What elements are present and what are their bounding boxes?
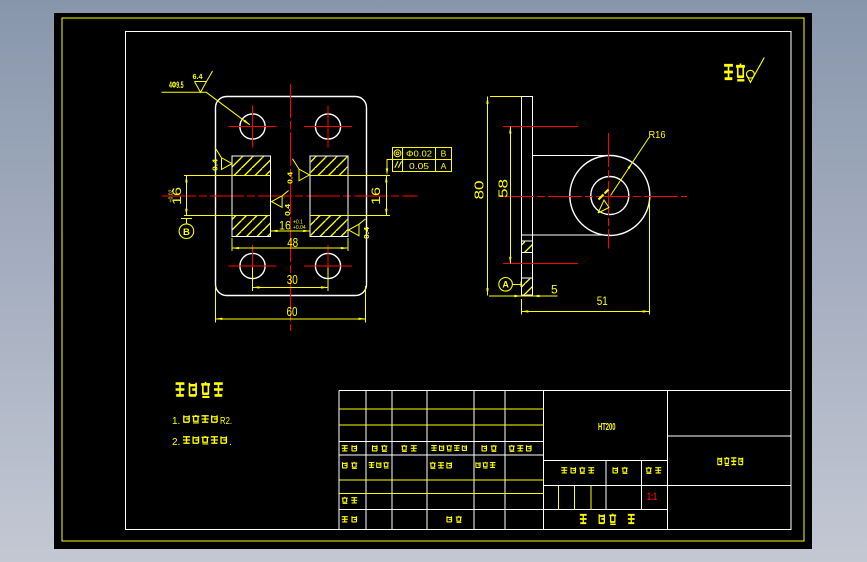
centerline cross of hole top-right — [304, 106, 352, 148]
dimension 16 slot height (left) — [185, 175, 187, 215]
plate hatching lower patch — [522, 279, 532, 295]
svg-text:HT200: HT200 — [598, 422, 616, 433]
svg-text:A: A — [441, 161, 447, 171]
row: check — [342, 497, 348, 504]
stage mark / weight / scale labels — [561, 467, 567, 473]
svg-text:30: 30 — [287, 272, 298, 287]
surface finish 0.4 slot right face — [293, 159, 310, 181]
horizontal center line of slot — [162, 195, 418, 197]
hole top-right — [315, 114, 340, 139]
svg-text:2.: 2. — [172, 437, 180, 448]
title block yellow lines — [339, 409, 591, 510]
row: craft — [342, 516, 348, 522]
side view: plate — [521, 97, 532, 295]
title block header row labels — [342, 445, 348, 451]
centerline cross of hole bottom-right — [304, 245, 352, 287]
dimension 60 — [215, 286, 365, 323]
hatching right block top — [311, 156, 348, 175]
side view: hole circle — [591, 177, 629, 215]
left boss block outline — [232, 156, 271, 237]
svg-text:B: B — [183, 227, 190, 238]
dimension 16 slot width with tolerance — [271, 230, 311, 232]
svg-text:0.4: 0.4 — [362, 226, 371, 239]
tolerance frame leader — [387, 159, 393, 170]
svg-text:1:1: 1:1 — [647, 491, 657, 503]
row: design — [343, 462, 348, 468]
hatching left block top — [233, 156, 271, 175]
hole row center lines side view — [503, 127, 578, 264]
hatching right block bottom — [311, 216, 348, 236]
svg-text:+0.02: +0.02 — [169, 190, 175, 203]
plate hatching upper patch — [522, 242, 532, 253]
dimension 58 — [509, 127, 511, 264]
hole top-left — [240, 114, 265, 139]
svg-text:58: 58 — [496, 179, 510, 198]
surface finish 0.4 slot left face — [272, 191, 289, 208]
front view: part outline rounded square — [216, 97, 367, 296]
svg-text:.: . — [229, 437, 232, 448]
parallelism symbol — [395, 161, 402, 168]
svg-text:16: 16 — [369, 187, 383, 205]
hole bottom-left — [240, 253, 265, 278]
part name — [718, 457, 722, 465]
technical requirements title — [176, 383, 185, 397]
geometric tolerance frame — [393, 147, 452, 171]
svg-text:R2.: R2. — [220, 416, 232, 427]
side view horizontal center line — [500, 195, 687, 197]
dimension 16 boss height (right) — [385, 175, 387, 215]
svg-text:1.: 1. — [172, 416, 180, 427]
svg-text:6.4: 6.4 — [193, 72, 204, 81]
dimension 30 — [253, 268, 329, 292]
right boss block outline — [310, 156, 348, 237]
plate section edges — [521, 241, 532, 278]
hatching left block bottom — [233, 216, 271, 236]
side view vertical center line — [607, 133, 609, 249]
svg-text:0.4: 0.4 — [283, 203, 292, 216]
finish mark at hole center — [598, 200, 609, 213]
centerline cross of hole top-left — [229, 106, 277, 148]
datum symbol A side view — [512, 282, 521, 288]
side view: arm top/bottom lines — [521, 156, 610, 236]
svg-text:48: 48 — [287, 235, 298, 250]
svg-text:B: B — [441, 149, 447, 159]
svg-text:80: 80 — [472, 180, 486, 199]
side view: boss circle R16 — [570, 156, 650, 236]
dimension 48 — [232, 238, 348, 251]
svg-text:R16: R16 — [649, 130, 666, 141]
dimension 5 — [489, 295, 558, 297]
centerline cross of hole bottom-left — [229, 245, 277, 287]
concentricity symbol — [394, 150, 401, 157]
svg-text:4Φ9.5: 4Φ9.5 — [169, 80, 184, 90]
outer yellow border frame — [62, 18, 804, 541]
svg-text:Φ0.02: Φ0.02 — [406, 149, 432, 159]
dimension 51 — [521, 200, 649, 315]
svg-text:0.05: 0.05 — [409, 161, 429, 171]
slot band edge lines yellow — [184, 175, 390, 215]
surface finish 0.4 right block outer face — [349, 219, 366, 236]
datum symbol B — [181, 219, 192, 225]
svg-text:51: 51 — [597, 294, 608, 308]
svg-text:0.4: 0.4 — [286, 171, 295, 184]
svg-text:A: A — [502, 280, 509, 290]
svg-text:+0.04: +0.04 — [293, 225, 306, 231]
surface finish 0.4 left block outer face — [215, 148, 232, 170]
sheet count row — [580, 514, 587, 524]
note: qiyu (rest of surfaces) — [724, 64, 733, 79]
svg-text:5: 5 — [551, 282, 558, 296]
title block white lines — [339, 390, 791, 529]
svg-text:0.4: 0.4 — [211, 158, 220, 171]
svg-text:16: 16 — [279, 219, 291, 233]
vertical center line of front view — [290, 84, 292, 331]
hole bottom-right — [315, 253, 340, 278]
dimension 80 — [488, 97, 522, 296]
inner white border frame — [125, 32, 791, 530]
svg-text:60: 60 — [287, 304, 298, 319]
